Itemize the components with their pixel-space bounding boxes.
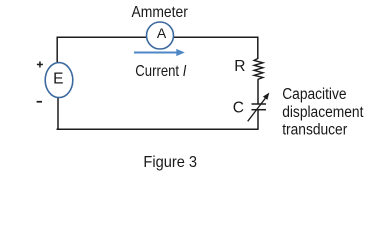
label - bbox=[37, 101, 42, 103]
svg-text:Capacitivedisplacementtransduc: Capacitivedisplacementtransducer bbox=[282, 87, 363, 139]
wire top-right segment bbox=[174, 36, 258, 38]
wire top-left segment bbox=[57, 36, 146, 38]
svg-text:Figure 3: Figure 3 bbox=[143, 154, 197, 171]
ammeter A bbox=[147, 22, 174, 49]
svg-text:Ammeter: Ammeter bbox=[132, 5, 188, 22]
resistor R bbox=[254, 59, 263, 80]
label + bbox=[37, 61, 43, 67]
svg-text:R: R bbox=[234, 58, 245, 75]
wire right vertical lower bbox=[257, 110, 259, 130]
source E bbox=[45, 63, 73, 98]
current arrow bbox=[134, 49, 185, 56]
capacitor C bbox=[248, 93, 270, 122]
wire right vertical upper bbox=[257, 37, 259, 60]
wire left vertical upper bbox=[56, 37, 58, 63]
wire left vertical lower bbox=[57, 98, 59, 129]
svg-text:E: E bbox=[53, 71, 63, 88]
wire bottom segment bbox=[57, 128, 259, 130]
wire right vertical middle bbox=[257, 79, 259, 104]
svg-text:C: C bbox=[233, 100, 244, 117]
svg-text:A: A bbox=[157, 25, 167, 41]
svg-text:Current I: Current I bbox=[135, 63, 186, 80]
